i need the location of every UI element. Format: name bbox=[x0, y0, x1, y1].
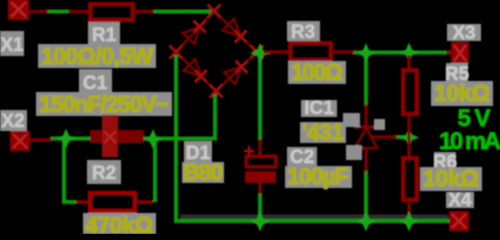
value R1 100Ω/0,5W bbox=[38, 43, 156, 69]
bridge vertex crosses bbox=[208, 5, 221, 18]
svg-text:X3: X3 bbox=[452, 23, 475, 44]
bridge diode D1a (L-T) bbox=[176, 11, 214, 52]
svg-text:B80: B80 bbox=[183, 159, 223, 185]
junction A (X2/C1/R2) bbox=[56, 129, 76, 149]
terminal pad X1 bbox=[8, 0, 48, 20]
resistor R6 bbox=[403, 158, 417, 219]
value IC1 '431 bbox=[300, 119, 346, 145]
terminal pad X4 bbox=[449, 211, 469, 231]
svg-text:10kΩ: 10kΩ bbox=[423, 165, 479, 191]
label D1 bbox=[184, 141, 212, 164]
wire top from X1 to R1 bbox=[46, 10, 70, 14]
wire C2 branch top bbox=[258, 54, 262, 141]
svg-text:R2: R2 bbox=[92, 163, 116, 184]
junction ref/divider bbox=[399, 128, 419, 148]
svg-text:IC1: IC1 bbox=[304, 98, 334, 119]
TL431 pin label R bbox=[374, 119, 385, 130]
svg-text:100Ω/0,5W: 100Ω/0,5W bbox=[41, 43, 153, 69]
wire TL431 cathode branch bbox=[364, 54, 368, 106]
TL431 pin label A bbox=[346, 145, 362, 160]
label IC1 bbox=[301, 98, 337, 119]
rail ghost band bbox=[180, 215, 448, 220]
wire R3 to X3 bbox=[352, 51, 450, 55]
svg-text:470kΩ: 470kΩ bbox=[85, 212, 153, 234]
label X1 bbox=[0, 31, 24, 56]
junction TL431 tap bbox=[356, 43, 376, 63]
label X3 bbox=[447, 23, 481, 44]
svg-text:10 mA: 10 mA bbox=[439, 128, 500, 155]
value C1 150nF/250V~ bbox=[36, 91, 172, 117]
capacitor C2 bbox=[244, 139, 276, 194]
junction B (C1/R2 right) bbox=[143, 129, 163, 149]
label X4 bbox=[446, 190, 474, 211]
wire TL431 ref to divider bbox=[395, 135, 408, 139]
TL431 pin label K bbox=[343, 113, 360, 127]
svg-text:X1: X1 bbox=[0, 35, 24, 56]
svg-text:150nF/250V~: 150nF/250V~ bbox=[39, 91, 169, 117]
label R3 bbox=[287, 21, 320, 43]
resistor R1 bbox=[68, 4, 154, 20]
junction bridge right / C2 tap bbox=[250, 43, 270, 63]
wire R2 left branch bbox=[64, 139, 76, 202]
capacitor C1 bbox=[90, 115, 144, 157]
svg-text:X2: X2 bbox=[1, 111, 24, 132]
value R3 100Ω bbox=[288, 59, 346, 85]
value R2 470kΩ bbox=[83, 212, 156, 238]
value R6 10kΩ bbox=[420, 165, 482, 191]
svg-text:R3: R3 bbox=[291, 22, 315, 43]
label R1 bbox=[88, 22, 120, 46]
svg-text:100µF: 100µF bbox=[287, 163, 349, 189]
svg-text:10kΩ: 10kΩ bbox=[434, 80, 490, 106]
label C1 bbox=[79, 69, 112, 94]
resistor R2 bbox=[76, 193, 153, 211]
junction R5 tap bbox=[399, 43, 419, 63]
terminal pad X3 bbox=[446, 42, 469, 64]
wire TL431 anode to rail bbox=[364, 170, 368, 220]
wire top from R1 to bridge top bbox=[152, 10, 211, 14]
label R2 bbox=[87, 160, 121, 184]
label C2 bbox=[287, 147, 317, 168]
svg-text:100Ω: 100Ω bbox=[291, 59, 343, 85]
wire X2 input line bbox=[50, 137, 94, 141]
svg-text:X4: X4 bbox=[448, 190, 472, 211]
junction rail R6 bbox=[399, 212, 419, 232]
value D1 B80 bbox=[182, 159, 224, 185]
wire bridge right to R3 bbox=[258, 51, 270, 55]
label R5 bbox=[445, 63, 470, 85]
label X2 bbox=[0, 110, 27, 132]
bridge rectifier D1 bbox=[170, 5, 264, 98]
wire bridge left vertex down to bottom rail bbox=[176, 55, 451, 221]
bridge diode D1c (L-B) bbox=[176, 52, 216, 91]
terminal pad X2 bbox=[10, 131, 52, 151]
value C2 100µF bbox=[285, 163, 352, 189]
junction rail TL431 bbox=[356, 212, 376, 232]
value R5 10kΩ bbox=[431, 80, 493, 106]
label R6 bbox=[433, 152, 457, 173]
resistor R5 bbox=[403, 55, 417, 158]
junction rail C2 bbox=[250, 212, 270, 232]
wire C1 right to bridge bottom bbox=[126, 94, 215, 139]
wire C2 branch bottom bbox=[258, 192, 262, 220]
resistor R3 bbox=[263, 43, 354, 60]
bridge diode D1b (T-R) bbox=[214, 11, 257, 52]
bridge diode D1d (B-R) bbox=[216, 52, 257, 91]
TL431 IC1 bbox=[354, 104, 397, 172]
wire R2 right branch bbox=[153, 140, 157, 202]
svg-text:'431: '431 bbox=[302, 119, 344, 145]
